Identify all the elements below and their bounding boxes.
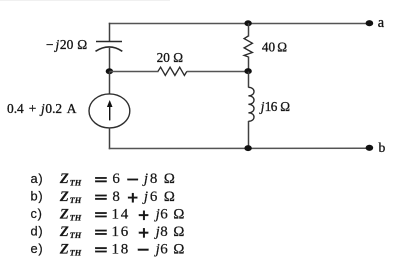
svg-text:20: 20 — [60, 37, 74, 52]
node: left middle junction — [106, 68, 113, 74]
node: bottom junction — [244, 145, 251, 151]
svg-text:8: 8 — [160, 224, 168, 240]
svg-text:18: 18 — [112, 241, 130, 257]
node: top junction on top rail — [244, 20, 251, 26]
svg-text:16: 16 — [265, 99, 278, 114]
svg-text:8: 8 — [112, 189, 120, 205]
svg-text:A: A — [67, 101, 77, 116]
svg-text:TH: TH — [70, 196, 82, 205]
svg-text:d): d) — [31, 224, 44, 239]
current source arrow shaft — [109, 104, 111, 121]
svg-text:Ω: Ω — [164, 189, 175, 205]
answer option c — [31, 206, 185, 222]
wire: left branch vertical from top rail down to capacitor — [109, 23, 111, 42]
svg-text:j: j — [154, 206, 160, 222]
svg-text:j: j — [142, 171, 148, 187]
capacitor C1 top plate — [96, 41, 122, 43]
answer option b — [31, 189, 175, 205]
wire: top rail from left branch to terminal a — [109, 23, 367, 25]
inductor L1 j16 ohm coil — [248, 87, 254, 121]
svg-text:Ω: Ω — [173, 241, 184, 257]
svg-text:Ω: Ω — [77, 37, 87, 52]
resistor R2 40 ohm vertical zigzag — [244, 36, 252, 57]
answer option a — [31, 171, 175, 187]
label 40 ohm — [262, 40, 287, 55]
svg-text:6: 6 — [112, 171, 120, 187]
svg-text:Z: Z — [59, 241, 69, 257]
wire: capacitor to left-middle node — [109, 48, 111, 72]
svg-text:Ω: Ω — [173, 50, 183, 65]
label 20 ohm — [157, 50, 184, 65]
wire: right branch from top node to resistor — [248, 23, 250, 37]
svg-text:Z: Z — [59, 171, 69, 187]
svg-text:0.4: 0.4 — [7, 101, 24, 116]
svg-text:TH: TH — [70, 231, 82, 240]
svg-text:6: 6 — [160, 241, 168, 257]
svg-text:j: j — [154, 241, 160, 257]
svg-text:a): a) — [31, 171, 44, 186]
svg-text:14: 14 — [112, 206, 130, 222]
svg-text:b): b) — [31, 189, 44, 204]
node: right middle junction — [244, 68, 251, 74]
svg-text:Ω: Ω — [173, 224, 184, 240]
svg-text:j: j — [54, 37, 60, 52]
answer option d — [31, 224, 185, 240]
svg-text:TH: TH — [70, 178, 82, 187]
svg-text:j: j — [154, 224, 160, 240]
wire: bottom rail to terminal b — [109, 147, 367, 149]
svg-text:+: + — [29, 101, 37, 116]
wire: inductor to bottom node — [248, 121, 250, 149]
faint top edge artifact — [0, 0, 170, 2]
label 0.4 + j0.2 A — [7, 101, 77, 116]
capacitor C1 curved bottom plate — [96, 47, 123, 51]
svg-text:6: 6 — [160, 206, 168, 222]
svg-text:40: 40 — [262, 40, 276, 55]
svg-text:8: 8 — [150, 171, 158, 187]
svg-text:c): c) — [31, 206, 43, 221]
svg-text:j: j — [39, 101, 45, 116]
terminal b — [366, 145, 374, 151]
svg-text:20: 20 — [157, 50, 171, 65]
svg-text:16: 16 — [112, 224, 130, 240]
svg-text:Ω: Ω — [164, 171, 175, 187]
svg-text:0.2: 0.2 — [45, 101, 62, 116]
wire: right-middle node down to inductor — [248, 72, 250, 88]
svg-text:Z: Z — [59, 206, 69, 222]
svg-text:Z: Z — [59, 189, 69, 205]
current source I1 ellipse — [89, 94, 130, 128]
svg-text:b: b — [379, 140, 386, 155]
svg-text:Ω: Ω — [280, 99, 290, 114]
svg-text:Ω: Ω — [173, 206, 184, 222]
svg-text:Ω: Ω — [277, 40, 287, 55]
answer option e — [31, 241, 185, 257]
label j16 ohm — [259, 99, 291, 114]
resistor R1 20 ohm zigzag — [158, 67, 187, 75]
svg-text:j: j — [142, 189, 148, 205]
wire: node down to current source — [109, 72, 111, 95]
svg-text:Z: Z — [59, 224, 69, 240]
svg-text:TH: TH — [70, 214, 82, 223]
svg-text:TH: TH — [70, 249, 82, 258]
current source arrow head — [107, 100, 113, 107]
wire: current source bottom to bottom rail — [109, 128, 111, 150]
wire: middle rail right segment — [187, 71, 249, 73]
svg-text:−: − — [46, 37, 54, 52]
svg-text:e): e) — [31, 241, 44, 256]
wire: middle rail left segment — [110, 71, 159, 73]
svg-text:a: a — [378, 15, 385, 31]
terminal a — [366, 20, 374, 26]
label -j20 ohm — [46, 37, 87, 52]
wire: resistor to right-middle node — [248, 57, 250, 72]
svg-text:6: 6 — [150, 189, 158, 205]
